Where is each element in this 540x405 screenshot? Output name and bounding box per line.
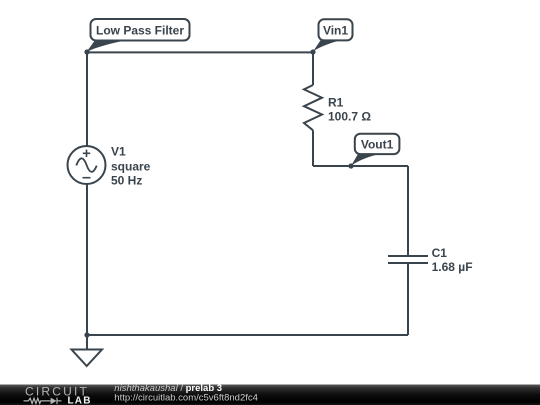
svg-text:Low Pass Filter: Low Pass Filter [96, 23, 184, 37]
svg-text:Vout1: Vout1 [361, 138, 394, 152]
wire capacitor bottom lead [407, 263, 409, 335]
wire left vertical lower [86, 184, 88, 335]
logo diode output lead [57, 400, 61, 402]
junction dot Vin1 [310, 49, 315, 54]
capacitor C1 [388, 246, 473, 274]
Low Pass Filter flag pointer [87, 40, 128, 52]
svg-text:100.7 Ω: 100.7 Ω [328, 109, 371, 123]
Vout1 flag pointer [351, 154, 377, 166]
junction dot ground [84, 332, 89, 337]
V1 circle body [68, 146, 106, 184]
node Vin1 flag [313, 19, 353, 51]
logo diode cathode bar [56, 398, 58, 404]
wire left vertical upper [86, 52, 88, 146]
Vin1 flag pointer [313, 40, 339, 51]
svg-text:C1: C1 [432, 246, 448, 260]
V1 plus sign horizontal stroke [83, 152, 90, 154]
C1 bottom plate [388, 262, 428, 264]
logo diode triangle [51, 398, 57, 405]
svg-text:V1: V1 [111, 144, 126, 158]
V1 minus sign [83, 177, 91, 179]
svg-text:Vin1: Vin1 [323, 23, 348, 37]
C1 top plate [388, 255, 428, 257]
V1 plus sign vertical stroke [86, 150, 88, 157]
wire ground lead [86, 335, 88, 350]
svg-text:R1: R1 [328, 96, 344, 110]
ground [72, 350, 103, 367]
node Vout1 flag [351, 134, 399, 166]
wire Vout horizontal [313, 165, 408, 167]
Low Pass Filter flag box [91, 19, 190, 41]
svg-text:50 Hz: 50 Hz [111, 174, 142, 188]
voltage source V1 [68, 144, 151, 187]
resistor R1 zigzag body [304, 85, 322, 130]
wire top horizontal net [87, 51, 313, 53]
node Low Pass Filter flag [87, 19, 190, 52]
svg-text:LAB: LAB [68, 395, 92, 405]
svg-text:http://circuitlab.com/c5v6ft8n: http://circuitlab.com/c5v6ft8nd2fc4 [114, 393, 258, 404]
V1 sine waveform [76, 158, 96, 172]
Vin1 flag box [319, 19, 353, 40]
wire resistor bottom lead [312, 130, 314, 166]
svg-text:1.68 µF: 1.68 µF [432, 260, 473, 274]
junction dot Vout1 [348, 163, 353, 168]
wire capacitor top lead [407, 166, 409, 256]
wire right vertical to resistor [312, 52, 314, 85]
footer bar [0, 385, 540, 405]
wire bottom horizontal net [87, 334, 408, 336]
logo resistor zigzag with leads [24, 398, 51, 403]
Vout1 flag box [355, 134, 400, 154]
svg-text:square: square [111, 159, 151, 173]
resistor R1 [304, 85, 371, 130]
junction dot top-left [84, 49, 89, 54]
footer logo resistor-diode symbol [24, 398, 62, 405]
